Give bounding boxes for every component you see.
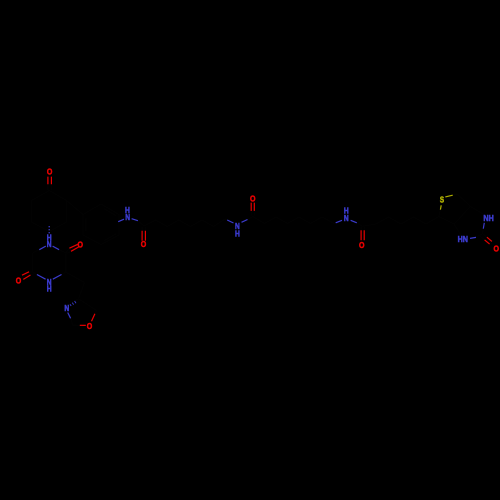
- svg-text:HN: HN: [458, 234, 468, 244]
- bond N3 to C3a blue half: [351, 220, 357, 223]
- bond C5=O5 red halves: [22, 272, 31, 280]
- wire chain C3a to biotin C4: [362, 217, 439, 227]
- bond N4-C3 blue half: [53, 275, 62, 280]
- wire C1a=O1a upper halves: [142, 227, 145, 231]
- bond ketone C=O red halves: [48, 177, 52, 185]
- svg-text:O: O: [359, 240, 365, 250]
- blue nitrogen bonds: [37, 219, 484, 319]
- wire N1a to C1a: [138, 221, 144, 226]
- wire benzene inner aromatic lines: [86, 209, 116, 241]
- bond C2a=O2a red halves: [251, 203, 254, 211]
- wire CH2a to oxazoline C4: [79, 283, 85, 299]
- bond C3a=O3a red halves: [361, 230, 364, 240]
- bond N2 to CH2 blue half: [227, 220, 233, 223]
- svg-text:NH: NH: [483, 213, 493, 223]
- wire N2 to C2a: [248, 217, 253, 220]
- svg-text:N: N: [47, 239, 52, 249]
- svg-text:O: O: [493, 244, 499, 254]
- wire hexenone to benzene: [67, 201, 84, 215]
- svg-text:O: O: [250, 193, 256, 203]
- wire chain C1a to N2: [144, 219, 227, 227]
- red oxygen bonds: [22, 177, 492, 326]
- svg-text:S: S: [440, 195, 444, 205]
- bond C2p=O4a red halves: [485, 237, 492, 244]
- bond N1a to C1a blue half: [132, 219, 138, 221]
- wire ring to N1: [48, 232, 50, 235]
- wire oxazoline carbon halves: [71, 299, 97, 326]
- wire DKP ring carbon halves: [33, 250, 66, 275]
- svg-text:H: H: [235, 228, 240, 238]
- wire N1a to benzene: [117, 221, 120, 222]
- svg-text:O: O: [141, 239, 147, 249]
- bond N1a to benzene blue half: [118, 219, 124, 222]
- bond oxazoline O-C5 red half: [92, 314, 95, 321]
- yellow sulfur bonds: [440, 195, 452, 209]
- bond S-C6 yellow half: [445, 195, 452, 197]
- svg-text:O: O: [87, 321, 93, 331]
- wire C3 to CH2a: [66, 272, 85, 282]
- bond N1-C6 blue half: [39, 246, 46, 250]
- wire C5=O5 carbon halves: [29, 272, 34, 275]
- svg-text:H: H: [47, 284, 52, 294]
- atom labels: [16, 166, 499, 331]
- svg-text:N: N: [344, 213, 349, 223]
- bond biotin N1p to C2p blue half: [483, 223, 484, 229]
- svg-text:O: O: [16, 276, 22, 286]
- svg-text:O: O: [78, 240, 84, 250]
- bond N1-C2 blue half: [53, 246, 60, 250]
- wire ketone C=O lower half: [48, 184, 52, 190]
- wire chain C2a to N3: [253, 217, 336, 224]
- faint carbon skeleton: [29, 184, 487, 325]
- wire C3a=O3a upper halves: [361, 227, 364, 230]
- bond C2=O2 red halves: [69, 244, 79, 251]
- wire C2=O2 carbon halves: [66, 248, 71, 253]
- wire C2a=O2a lower halves: [251, 211, 254, 216]
- svg-text:N: N: [64, 303, 69, 313]
- bond N4-C5 blue half: [37, 275, 46, 280]
- svg-text:O: O: [47, 166, 53, 176]
- bond N3 to CH2 blue half: [336, 220, 342, 223]
- bond C1a=O1a red halves: [142, 231, 145, 241]
- bond biotin N3p to C2p blue half: [470, 237, 476, 238]
- bond oxazoline O-C2 red half: [80, 324, 86, 326]
- bond oxazoline N=C2 blue half: [68, 313, 71, 319]
- wire C2p=O4a carbon halves: [480, 234, 487, 240]
- svg-text:N: N: [125, 212, 130, 222]
- wire cyclohexenone ring: [32, 191, 67, 232]
- bond N2 to C2a blue half: [242, 220, 248, 223]
- wire biotin thiolane ring carbon parts: [439, 194, 471, 224]
- bond hexenone C to N1 hashed: [48, 226, 50, 234]
- wire biotin urea ring carbon parts: [454, 207, 484, 238]
- wire benzene ring: [83, 204, 119, 245]
- bond S-C4 yellow half: [439, 205, 442, 209]
- bond oxazoline N-C4 hashed wedge: [70, 301, 76, 306]
- wire N3 to C3a: [357, 223, 363, 227]
- wire oxazoline C4-C5: [79, 299, 97, 311]
